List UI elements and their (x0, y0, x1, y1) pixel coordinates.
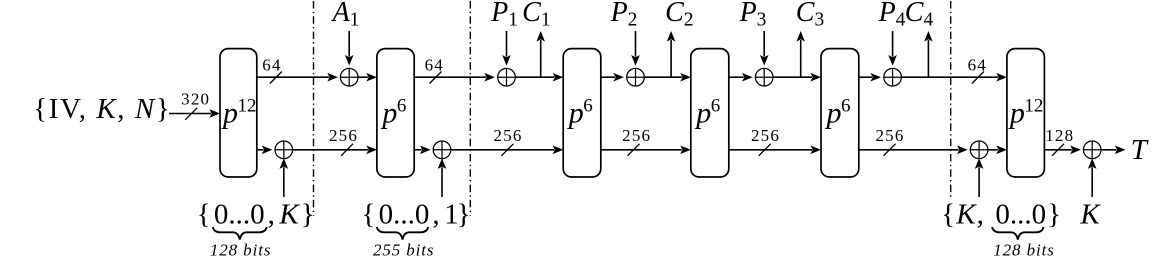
xor gate A1 (associated data absorb) (340, 68, 358, 86)
bus slash 64 (430, 72, 442, 84)
svg-text:256: 256 (751, 126, 780, 145)
xor gate final key addition K (1083, 141, 1101, 159)
svg-text:6: 6 (841, 95, 851, 116)
svg-text:6: 6 (397, 95, 407, 116)
svg-text:{0...0,K}: {0...0,K} (197, 199, 315, 231)
arrow {K,0...0} up into xor (975, 158, 984, 197)
wire top rail: xor P2 to p6 #3 (645, 73, 691, 82)
svg-text:{K,0...0}: {K,0...0} (941, 199, 1061, 231)
svg-text:12: 12 (1024, 95, 1043, 116)
wire bottom rail: p6 #2 to p6 #3 (256) (601, 146, 691, 155)
wire bottom rail: p12 to xor K (capacity) (257, 146, 273, 155)
xor gate P1/C1 (498, 68, 516, 86)
svg-text:320: 320 (181, 90, 210, 109)
arrow key K up into final xor (1088, 158, 1097, 197)
svg-text:K: K (1079, 199, 1101, 231)
arrow P1 input down into xor (502, 31, 511, 66)
wire bottom rail: xor K to p6 #1 (256) (293, 146, 377, 155)
svg-text:256: 256 (329, 126, 358, 145)
bus slash 256 (628, 144, 640, 156)
arrow C3 output up from rail (796, 31, 805, 77)
wire top rail: p6 #1 to xor P1 (64) (414, 73, 495, 82)
wire top rail: p6 #2 to xor P2 (601, 73, 624, 82)
wire bottom rail: p6 #1 to xor 0..01 (414, 146, 430, 155)
svg-text:p: p (380, 97, 397, 130)
arrow C2 output up from rail (667, 31, 676, 77)
arrow {0...0,1} up into xor (438, 158, 447, 197)
wire top rail: xor P3 to p6 #4 (773, 73, 821, 82)
svg-text:p: p (825, 97, 842, 130)
svg-text:p: p (1008, 97, 1025, 130)
wire top rail: p6 #4 to xor P4 (859, 73, 881, 82)
svg-text:64: 64 (262, 56, 281, 75)
wire bottom rail: p6 #3 to p6 #4 (256) (729, 146, 821, 155)
wire bottom rail: xor 0..01 to p6 #2 (256) (451, 146, 563, 155)
bus slash 256 (884, 144, 896, 156)
phase separator line 1 (init/AD) (313, 1, 315, 216)
wire bottom rail: final p12 to xor K (128) (1044, 146, 1080, 155)
permutation box U2 p^6 (associated data) (377, 49, 414, 177)
svg-text:256: 256 (875, 126, 904, 145)
svg-text:256: 256 (622, 126, 651, 145)
bus slash 256 (501, 144, 513, 156)
svg-text:128 bits: 128 bits (210, 241, 272, 260)
wire top rail: p6 #3 to xor P3 (729, 73, 753, 82)
wire top rail: p12 to xor A1 (64) (257, 73, 338, 82)
wire bottom rail: p6 #4 to xor K|0 (256) (859, 146, 968, 155)
permutation box U6 p^12 (finalization) (1007, 49, 1045, 177)
svg-text:p: p (567, 97, 584, 130)
bus slash 64 (270, 72, 282, 84)
bus slash 64 (972, 72, 984, 84)
underbrace 128 bits (final key) (992, 227, 1043, 240)
svg-text:6: 6 (711, 95, 721, 116)
permutation box U1 p^12 (initialization) (220, 49, 257, 177)
underbrace 255 bits (domain sep) (377, 227, 428, 240)
svg-text:p: p (221, 97, 238, 130)
wire output to tag T (1101, 146, 1125, 155)
permutation box U4 p^6 (encrypt block 2) (691, 49, 729, 177)
wire bottom rail: xor K|0 to final p12 (988, 146, 1007, 155)
arrow P2 input down into xor (631, 31, 640, 66)
svg-text:{0...0,1}: {0...0,1} (362, 199, 471, 231)
xor gate P2/C2 (627, 68, 645, 86)
svg-text:{IV, K, N}: {IV, K, N} (33, 93, 171, 125)
svg-text:256: 256 (493, 126, 522, 145)
permutation box U5 p^6 (encrypt block 3) (821, 49, 859, 177)
phase separator line 3 (encrypt/final) (950, 1, 952, 199)
svg-text:128 bits: 128 bits (993, 241, 1055, 260)
svg-text:255 bits: 255 bits (373, 241, 435, 260)
arrow P4 input down into xor (888, 31, 897, 66)
bus slash 256 (759, 144, 771, 156)
underbrace 128 bits (init key) (213, 227, 267, 240)
svg-text:12: 12 (238, 95, 257, 116)
permutation box U3 p^6 (encrypt block 1) (563, 49, 601, 177)
svg-text:T: T (1131, 134, 1149, 166)
svg-text:128: 128 (1045, 126, 1074, 145)
svg-text:p: p (694, 97, 711, 130)
xor gate key addition {K,0...0} (970, 141, 988, 159)
xor gate key addition {0...0,K} (275, 141, 293, 159)
wire top rail: xor P4 to p12 final (64) (902, 73, 1007, 82)
xor gate domain separation {0...0,1} (433, 141, 451, 159)
arrow A1 input down into xor (345, 31, 354, 66)
arrow P3 input down into xor (760, 31, 769, 66)
input wire 320 bits into p12 (169, 109, 220, 118)
arrow key {0...0,K} up into xor (280, 158, 289, 197)
xor gate P4/C4 (884, 68, 902, 86)
xor gate P3/C3 (755, 68, 773, 86)
arrow C4 output up from rail (924, 31, 933, 77)
wire top rail: xor A1 to p6 #1 (358, 73, 377, 82)
bus slash 256 (341, 144, 353, 156)
wire top rail: xor P1 to p6 #2 (516, 73, 564, 82)
svg-text:6: 6 (583, 95, 593, 116)
arrow C1 output up from rail (536, 31, 545, 77)
bus slash 128 (1052, 144, 1064, 156)
bus slash 320 (185, 108, 197, 120)
phase separator line 2 (AD/encrypt) (469, 1, 471, 216)
